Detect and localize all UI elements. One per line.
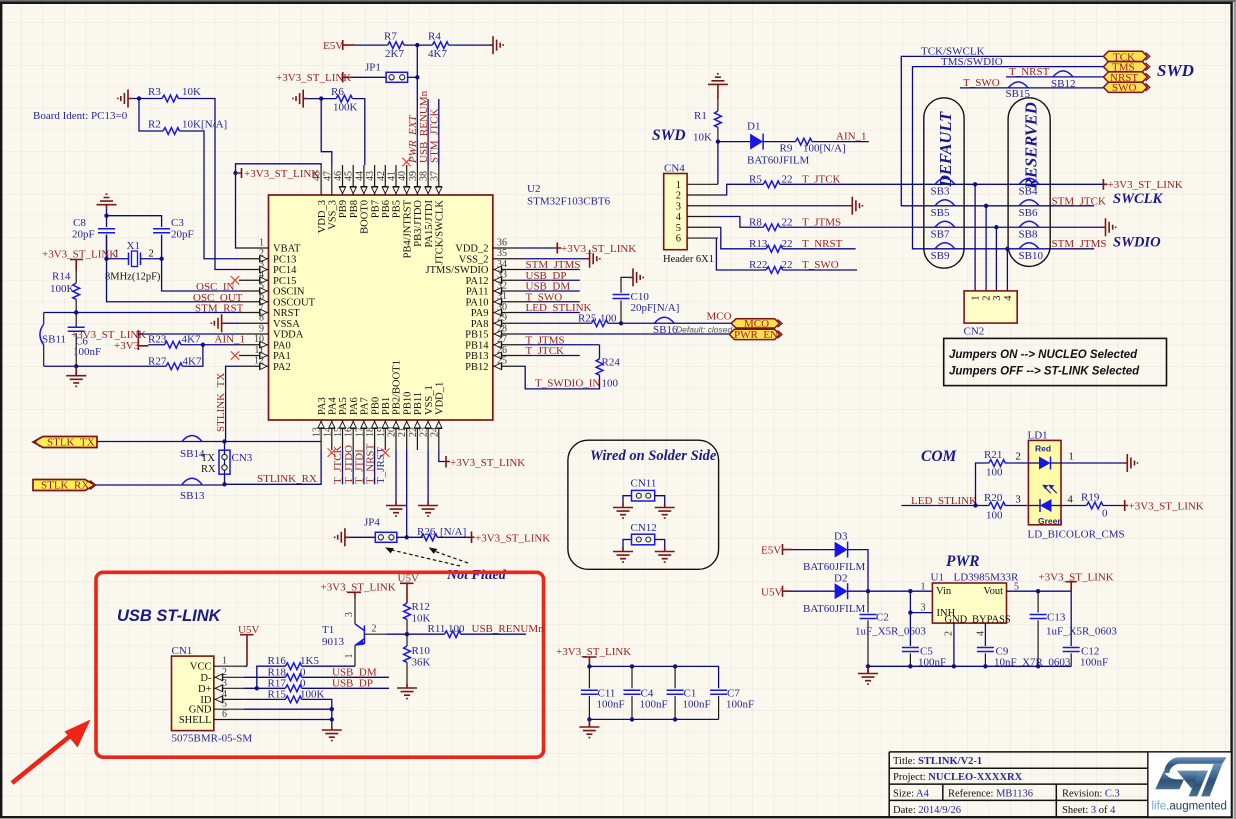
svg-text:T_JTCK: T_JTCK (802, 173, 841, 185)
svg-text:R9: R9 (780, 143, 793, 155)
node R25/C10 (619, 321, 623, 325)
ST logo cell (1149, 753, 1231, 817)
svg-text:SB13: SB13 (180, 490, 205, 502)
resistor R6 (336, 95, 352, 102)
solder bridge SB5 (931, 200, 955, 219)
svg-text:NRST: NRST (273, 308, 300, 319)
svg-text:PA1: PA1 (273, 351, 291, 362)
connector CN11 (623, 478, 665, 506)
port PWR_EN (729, 329, 782, 341)
svg-text:3: 3 (992, 296, 1003, 301)
port TCK (1103, 51, 1149, 63)
resistor R8 (763, 224, 779, 231)
wire R9 to AIN_1 (812, 141, 869, 143)
svg-text:VSS_1: VSS_1 (424, 385, 435, 415)
wire VDD_3/VBAT rail (236, 164, 322, 248)
ground (VSSA pin 8) (226, 322, 239, 324)
wire TMS/SWDIO (913, 67, 1104, 249)
resistor R15 (285, 696, 301, 703)
svg-text:D3: D3 (834, 531, 848, 543)
node C6 top (74, 310, 78, 314)
U2 right pin I/O arrows (494, 266, 502, 370)
svg-text:R13: R13 (749, 238, 768, 250)
wire R18 to USB_DM (302, 676, 389, 678)
svg-text:11: 11 (254, 345, 264, 356)
svg-text:CN4: CN4 (664, 163, 685, 175)
resistor R7 (388, 42, 404, 49)
U2 top pin stubs 48-37 (321, 165, 439, 195)
node brail C11 (587, 717, 591, 721)
U2 bottom pin stubs 13-24 (321, 420, 439, 450)
svg-text:22: 22 (782, 173, 793, 185)
connector CN4 header (663, 163, 718, 266)
svg-text:LD3985M33R: LD3985M33R (954, 572, 1019, 584)
svg-text:LED_STLINK: LED_STLINK (911, 495, 977, 507)
ground (R6) (293, 90, 307, 108)
svg-text:T_SWO: T_SWO (802, 259, 839, 271)
svg-text:20pF[N/A]: 20pF[N/A] (631, 302, 680, 314)
svg-text:SB8: SB8 (1019, 229, 1038, 241)
ground (R10) (397, 684, 417, 699)
node rail C2 (866, 664, 870, 668)
svg-text:USB_DP: USB_DP (332, 677, 373, 689)
node CN3 bottom (222, 482, 226, 486)
wire T_SWO (523, 301, 580, 303)
node brail C1 (673, 717, 677, 721)
node rail C11 (587, 664, 591, 668)
capacitor C5 (902, 646, 946, 669)
svg-text:1: 1 (222, 656, 227, 667)
resistor R22 (766, 267, 782, 274)
svg-text:CN2: CN2 (964, 326, 985, 338)
svg-text:22: 22 (782, 238, 793, 250)
resistor R21 (989, 460, 1005, 467)
svg-text:Sheet: 3 of 4: Sheet: 3 of 4 (1062, 805, 1116, 816)
svg-text:100K: 100K (300, 688, 325, 700)
svg-text:T_JTCK: T_JTCK (526, 345, 565, 357)
svg-text:4: 4 (1068, 495, 1074, 506)
svg-text:+3V3_ST_LINK: +3V3_ST_LINK (1108, 179, 1183, 191)
svg-text:23: 23 (419, 427, 430, 437)
svg-text:PB4/JNTRST: PB4/JNTRST (402, 199, 413, 258)
wire D- to R18 (244, 676, 285, 678)
svg-text:STM_JTCK: STM_JTCK (1052, 195, 1106, 207)
ground (CN11 right) (655, 504, 675, 519)
svg-text:R16: R16 (268, 655, 287, 667)
svg-text:PB14: PB14 (465, 340, 489, 351)
svg-text:E5V: E5V (323, 40, 343, 52)
node AIN_1 divider (201, 343, 205, 347)
svg-text:39: 39 (408, 171, 419, 181)
port MCO (731, 318, 782, 330)
svg-text:PA8: PA8 (471, 319, 489, 330)
svg-text:100nF: 100nF (1080, 657, 1108, 669)
wire T_JTCK (pin26) (523, 355, 580, 357)
svg-text:28: 28 (497, 324, 507, 335)
svg-text:R1: R1 (694, 110, 707, 122)
title block frame (889, 752, 1231, 817)
svg-text:PA12: PA12 (466, 276, 489, 287)
transistor T1 9013 (322, 598, 407, 666)
svg-text:10K[N/A]: 10K[N/A] (182, 119, 227, 131)
wire LD1 pin1 to ground (1061, 462, 1123, 464)
svg-text:+3V3_ST_LINK: +3V3_ST_LINK (244, 168, 319, 180)
svg-text:27: 27 (497, 334, 507, 345)
svg-text:SB11: SB11 (42, 334, 66, 346)
solder bridge SB14 (180, 436, 205, 461)
svg-text:6: 6 (676, 234, 681, 245)
power port +3V3_ST_LINK (VDD_3) (233, 168, 319, 180)
wire U1 BYPASS pin4 (984, 623, 986, 646)
wire SHELL row (244, 720, 332, 731)
svg-text:4K7: 4K7 (183, 356, 202, 368)
svg-text:PB2/BOOT1: PB2/BOOT1 (392, 360, 403, 415)
port STLK_RX (33, 480, 96, 492)
svg-text:VSSA: VSSA (273, 319, 300, 330)
svg-text:46: 46 (333, 171, 344, 181)
wire PWR ground rail (868, 665, 1071, 667)
svg-text:100: 100 (986, 510, 1003, 522)
svg-text:VSS_2: VSS_2 (459, 254, 489, 265)
svg-text:100nF: 100nF (73, 346, 101, 358)
svg-text:44: 44 (354, 171, 365, 181)
solder bridge SB4 (1019, 178, 1040, 197)
capacitor C8 (98, 229, 115, 233)
ground (JP4) (335, 528, 349, 546)
power port +3V3_ST_LINK / +3V3 (R23) (71, 329, 148, 352)
svg-text:CN11: CN11 (631, 478, 657, 490)
annotation red box (96, 572, 544, 757)
svg-text:33: 33 (497, 270, 507, 281)
group frame RESERVED (1008, 98, 1050, 267)
svg-text:20pF: 20pF (72, 229, 95, 241)
ground (BOOT1 pin20) (386, 502, 406, 517)
wire gnd to JP4 (349, 536, 375, 538)
svg-text:PB9: PB9 (338, 200, 349, 218)
svg-text:3: 3 (259, 259, 264, 270)
svg-text:PA11: PA11 (466, 287, 489, 298)
svg-text:PB3/JTDO: PB3/JTDO (413, 200, 424, 247)
svg-text:D+: D+ (198, 684, 212, 695)
wire T_JTMS row to SWDIO gnd (780, 226, 1102, 228)
wire R2 to PC13 (179, 131, 239, 259)
svg-text:STLK_RX: STLK_RX (41, 480, 89, 492)
wire T_JTMS (pin27) to R24 top (523, 344, 600, 346)
port SWO (1103, 82, 1149, 94)
power port U5V (CN1) (238, 624, 259, 666)
wire E5V to R7 (355, 44, 388, 46)
wire OSC_IN (162, 235, 239, 291)
wire gnd to R6 (307, 98, 336, 100)
svg-text:100[N/A]: 100[N/A] (803, 143, 846, 155)
svg-text:SB9: SB9 (931, 250, 950, 262)
svg-text:PA6: PA6 (349, 397, 360, 415)
svg-text:STM_JTCK: STM_JTCK (429, 109, 441, 163)
svg-text:16: 16 (344, 427, 355, 437)
port NRST (1103, 72, 1149, 84)
svg-text:9: 9 (259, 324, 264, 335)
svg-text:25: 25 (497, 356, 507, 367)
svg-text:1: 1 (344, 654, 355, 659)
svg-text:PA4: PA4 (328, 397, 339, 415)
svg-text:PB11: PB11 (413, 392, 424, 415)
svg-text:Green: Green (1038, 516, 1063, 526)
svg-text:100nF: 100nF (597, 699, 625, 711)
svg-text:R8: R8 (749, 216, 762, 228)
ground (CN12 left) (613, 548, 633, 563)
wire base row to R11 (407, 633, 444, 635)
svg-text:PA3: PA3 (317, 397, 328, 415)
svg-text:STLINK_TX: STLINK_TX (215, 373, 227, 432)
node rail C5 (908, 664, 912, 668)
U2 left pin I/O arrows (260, 255, 268, 369)
wire T_JTCK row to SWCLK flag (780, 183, 1104, 185)
U2 right pin numbers (497, 238, 507, 367)
wire junction down to pin 39 (416, 45, 418, 165)
svg-text:SWD: SWD (652, 127, 686, 144)
svg-text:100K: 100K (50, 283, 75, 295)
svg-text:R4: R4 (428, 31, 441, 43)
svg-text:C2: C2 (876, 612, 889, 624)
ground (caps rail) (588, 719, 590, 727)
svg-text:40: 40 (397, 171, 408, 181)
wire CN4 pin1 up to R1 (717, 142, 719, 185)
svg-text:PB5: PB5 (392, 200, 403, 218)
node R7/R4 junction (415, 43, 419, 47)
svg-text:VDD_3: VDD_3 (317, 200, 328, 233)
wire gnd to R3 (132, 98, 162, 100)
svg-text:100nF: 100nF (726, 699, 754, 711)
svg-text:100: 100 (986, 467, 1003, 479)
capacitor C3 (153, 229, 170, 233)
ground (CN1) (322, 726, 342, 741)
svg-text:32: 32 (497, 281, 507, 292)
svg-text:PB13: PB13 (465, 351, 488, 362)
connector CN1 USB (172, 645, 253, 745)
leader arrows (not fitted) (385, 547, 468, 566)
node rail C13 (1036, 664, 1040, 668)
svg-text:41: 41 (387, 171, 398, 181)
wire R20 to LD1 pin3 (1005, 505, 1028, 507)
wire STLK_RX to STLINK_RX (96, 450, 322, 485)
svg-text:CN12: CN12 (631, 522, 657, 534)
ST logo (1155, 757, 1226, 796)
wire D1 to R9 (763, 141, 795, 143)
resistor R4 (432, 42, 448, 49)
svg-text:10K: 10K (693, 132, 712, 144)
svg-text:1: 1 (921, 582, 926, 593)
svg-text:T_NRST: T_NRST (802, 238, 843, 250)
wire CN2 col2 (985, 206, 987, 291)
svg-text:SWCLK: SWCLK (1113, 191, 1163, 207)
wire STLINK_TX vertical from PA2 (226, 366, 239, 441)
svg-text:T1: T1 (322, 624, 334, 636)
U2 bottom pin names (317, 360, 446, 415)
svg-text:U5V: U5V (761, 587, 782, 599)
wire R21 to LD1 pin2 (1005, 462, 1028, 464)
svg-text:PA10: PA10 (466, 297, 489, 308)
wire T_JTCK pin15 (342, 450, 344, 484)
resistor R10 (406, 634, 408, 646)
wire X1 to C3 node (141, 258, 162, 260)
svg-text:R27: R27 (148, 356, 167, 368)
svg-text:Revision: C.3: Revision: C.3 (1062, 788, 1120, 799)
svg-text:R2: R2 (148, 119, 161, 131)
power port U5V (761, 586, 793, 599)
node R14/NRST (74, 310, 78, 314)
svg-text:PB15: PB15 (465, 330, 488, 341)
power port +3V3_ST_LINK (caps) (556, 646, 631, 666)
svg-text:2K7: 2K7 (385, 48, 404, 60)
wire INH (910, 591, 932, 646)
node rail C9 (983, 664, 987, 668)
svg-text:PWR: PWR (946, 553, 980, 570)
ground (VSS_2) (523, 258, 586, 260)
solder bridge SB3 (931, 178, 955, 197)
svg-text:100nF: 100nF (640, 699, 668, 711)
svg-text:PA15/JTDI: PA15/JTDI (424, 200, 435, 248)
svg-text:20pF: 20pF (171, 229, 194, 241)
svg-text:Project: NUCLEO-XXXXRX: Project: NUCLEO-XXXXRX (893, 772, 1023, 783)
svg-text:SB4: SB4 (1019, 186, 1038, 198)
svg-text:LD_BICOLOR_CMS: LD_BICOLOR_CMS (1028, 529, 1125, 541)
svg-text:+3V3_ST_LINK: +3V3_ST_LINK (475, 533, 550, 545)
svg-text:29: 29 (497, 313, 507, 324)
svg-text:BYPASS: BYPASS (972, 615, 1011, 626)
svg-text:PC14: PC14 (273, 265, 297, 276)
svg-text:10K: 10K (182, 86, 201, 98)
svg-text:E5V: E5V (761, 545, 781, 557)
wire D+ to R16 branch (244, 687, 285, 689)
svg-text:+3V3_ST_LINK: +3V3_ST_LINK (561, 243, 636, 255)
wire R26 to +3V3 (437, 536, 471, 538)
svg-text:42: 42 (376, 171, 387, 181)
svg-text:1: 1 (1069, 452, 1074, 463)
svg-text:GND: GND (945, 615, 968, 626)
power port +3V3_ST_LINK (SWCLK row) (1103, 179, 1182, 191)
capacitor C1 (667, 666, 711, 719)
svg-text:JTCK/SWCLK: JTCK/SWCLK (435, 200, 446, 265)
svg-text:7: 7 (259, 302, 264, 313)
wire CN2 col4 (1006, 249, 1008, 291)
svg-text:PB10: PB10 (402, 392, 413, 415)
node CN2 col3 (994, 225, 998, 229)
wire R11 to USB_RENUMn (461, 633, 526, 635)
svg-text:JTMS/SWDIO: JTMS/SWDIO (425, 265, 488, 276)
port TMS (1103, 62, 1149, 74)
wire CN2 col1 (974, 184, 976, 291)
solder bridge SB10 (1019, 243, 1044, 262)
wire VDD_2 (523, 247, 557, 249)
svg-text:SWDIO: SWDIO (1113, 235, 1161, 251)
svg-text:STLK_TX: STLK_TX (47, 437, 95, 449)
annotation red arrow (12, 720, 91, 784)
no-ERC mark pin 19 (381, 448, 389, 456)
wire JP4 to R26 (397, 536, 423, 538)
svg-text:DEFAULT: DEFAULT (936, 111, 955, 188)
svg-text:PC15: PC15 (273, 276, 296, 287)
ground (VSS_1 pin23) (418, 502, 438, 517)
svg-text:22: 22 (782, 259, 793, 271)
diode D3 BAT60JFILM (835, 542, 848, 558)
svg-text:SHELL: SHELL (179, 715, 212, 726)
solder bridge SB11 (40, 313, 66, 367)
wire R3 to PC14 (178, 99, 239, 270)
svg-text:1: 1 (259, 238, 264, 249)
svg-text:19: 19 (376, 427, 387, 437)
svg-text:Vin: Vin (936, 586, 952, 597)
svg-text:R25: R25 (578, 313, 597, 325)
diode D2 BAT60JFILM (835, 583, 848, 599)
svg-text:Wired on Solder Side: Wired on Solder Side (590, 448, 717, 464)
svg-text:3: 3 (676, 202, 681, 213)
wire to JP1 (351, 76, 386, 78)
svg-text:21: 21 (397, 427, 408, 437)
power port +3V3_ST_LINK (VDD_1) (446, 456, 525, 469)
wire R7 to junction (404, 44, 432, 46)
svg-text:R11: R11 (428, 623, 446, 635)
svg-text:[N/A]: [N/A] (440, 526, 466, 538)
wire R17 to USB_DP (302, 687, 389, 689)
power port +3V3_ST_LINK (JP1) (276, 72, 351, 84)
resistor R20 (989, 502, 1005, 509)
solder bridge SB15 (1006, 82, 1031, 100)
svg-text:BAT60JFILM: BAT60JFILM (747, 155, 810, 167)
wire PB15 to PWR_EN (523, 333, 729, 335)
svg-text:1uF_X5R_0603: 1uF_X5R_0603 (1046, 626, 1117, 638)
svg-text:8MHz(12pF): 8MHz(12pF) (105, 272, 161, 283)
LED LD1 bicolor (1028, 430, 1063, 527)
svg-text:+3V3_ST_LINK: +3V3_ST_LINK (1129, 501, 1204, 513)
svg-text:Size: A4: Size: A4 (893, 788, 930, 799)
svg-text:100nF: 100nF (683, 699, 711, 711)
diode D1 BAT60JFILM (750, 134, 763, 150)
wire R16 to T1 emitter (302, 665, 355, 667)
svg-text:13: 13 (312, 427, 323, 437)
node rail C1 (673, 664, 677, 668)
svg-text:3: 3 (921, 603, 926, 614)
svg-text:26: 26 (497, 345, 507, 356)
solder bridge SB9 (931, 243, 955, 262)
resistor R13 (766, 245, 782, 252)
power port E5V (761, 544, 793, 557)
svg-text:R23: R23 (148, 334, 167, 346)
annotation jumpers box (944, 338, 1167, 385)
U2 top pin numbers (312, 171, 441, 181)
svg-text:R20: R20 (984, 492, 1003, 504)
wire STM_JTMS (523, 269, 580, 271)
node rail C4 (630, 664, 634, 668)
svg-text:12: 12 (254, 356, 264, 367)
svg-text:3: 3 (344, 612, 355, 617)
svg-text:BAT60JFILM: BAT60JFILM (803, 603, 866, 615)
resistor R27 (166, 363, 182, 370)
wire U5V to D2 (793, 590, 835, 592)
wire R15 to GND rail (302, 699, 332, 709)
wire R6 to BOOT0 pin 44 (352, 99, 364, 165)
U2 right pin stubs 36-25 (493, 248, 523, 366)
svg-text:5: 5 (259, 281, 264, 292)
wire USB_DM (523, 290, 580, 292)
svg-text:100: 100 (448, 623, 465, 635)
power port +3V3_ST_LINK (R26) (472, 532, 551, 545)
svg-text:OSCIN: OSCIN (273, 287, 305, 298)
svg-text:PA7: PA7 (360, 397, 371, 415)
svg-text:Reference: MB1136: Reference: MB1136 (948, 788, 1033, 799)
wire branch up to R21 (976, 463, 989, 506)
svg-text:VDDA: VDDA (273, 330, 304, 341)
svg-text:6: 6 (222, 709, 227, 720)
